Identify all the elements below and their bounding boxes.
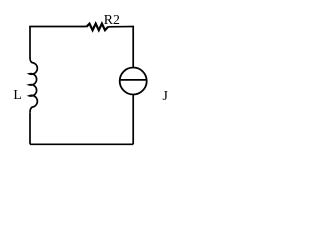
resistor R2 [86, 24, 108, 31]
wire bottom segment [30, 143, 133, 145]
svg-text:J: J [163, 88, 169, 103]
wire right segment [132, 95, 134, 145]
svg-text:R2: R2 [104, 12, 120, 27]
current source bar [120, 79, 147, 81]
wire bottom-left segment [29, 113, 31, 145]
current source J [120, 68, 147, 95]
svg-text:L: L [13, 87, 21, 102]
wire top-right segment [108, 27, 133, 68]
wire top-left segment [30, 27, 86, 59]
inductor L [29, 58, 37, 113]
